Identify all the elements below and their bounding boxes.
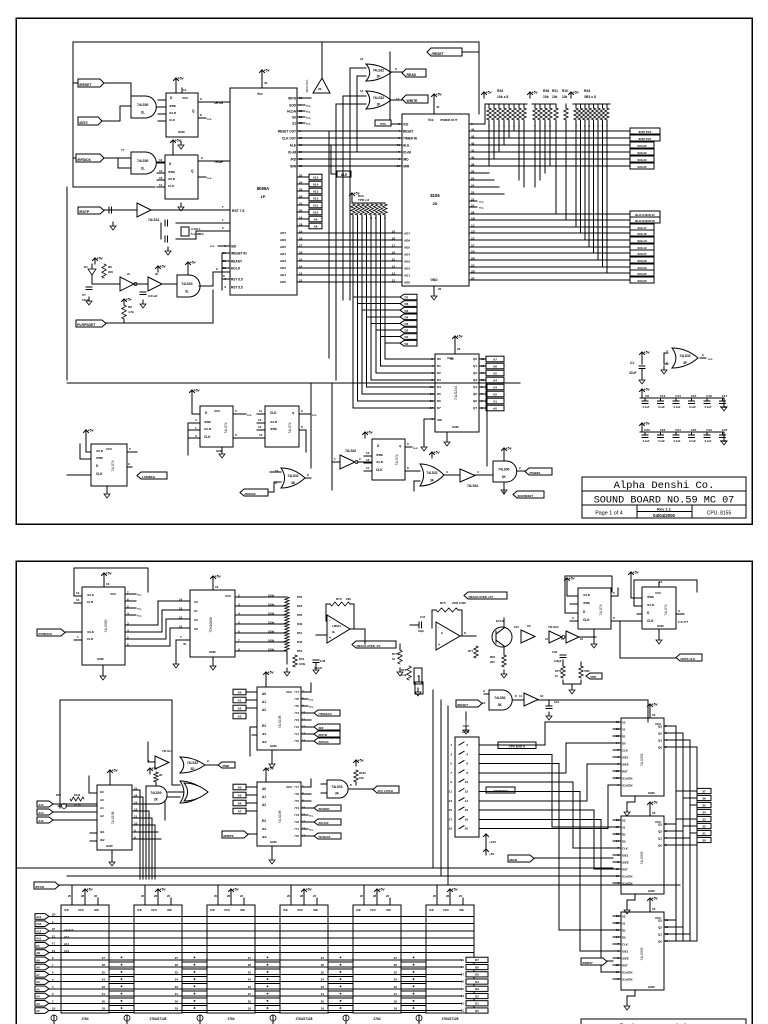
svg-text:12: 12 [76, 591, 80, 595]
svg-text:2764: 2764 [81, 1017, 88, 1021]
svg-text:Q2: Q2 [658, 925, 662, 929]
svg-text:220: 220 [108, 270, 113, 274]
svg-text:22: 22 [167, 894, 171, 898]
svg-text:41: 41 [471, 149, 475, 153]
svg-text:/PFCD: /PFCD [35, 885, 45, 889]
svg-text:SOL17: SOL17 [637, 226, 647, 230]
svg-text:ALE: ALE [341, 173, 347, 177]
svg-text:D1: D1 [475, 1002, 479, 1006]
svg-text:RST: RST [622, 769, 628, 773]
svg-text:E3: E3 [262, 724, 266, 728]
svg-text:/Y6: /Y6 [294, 697, 299, 701]
svg-text:VCC: VCC [225, 594, 232, 598]
svg-text:/WRITE: /WRITE [223, 834, 234, 838]
svg-text:D7: D7 [475, 958, 479, 962]
svg-text:+5v: +5v [178, 77, 184, 81]
svg-text:10: 10 [258, 425, 262, 429]
svg-text:/CLKEN: /CLKEN [622, 970, 632, 974]
svg-text:VCC: VCC [182, 96, 189, 100]
svg-text:23: 23 [248, 985, 252, 989]
svg-text:/RSTB: /RSTB [319, 733, 327, 737]
svg-text:24: 24 [471, 184, 475, 188]
svg-text:74LS393: 74LS393 [640, 947, 644, 960]
svg-text:/PRE: /PRE [168, 170, 175, 174]
svg-text:44: 44 [471, 128, 475, 132]
svg-text:CLK: CLK [168, 184, 175, 188]
svg-text:+5v: +5v [652, 801, 658, 805]
svg-text:/OE: /OE [94, 908, 99, 912]
svg-text:100k: 100k [268, 629, 275, 633]
svg-text:74LS74: 74LS74 [224, 422, 228, 433]
svg-text:n.c.: n.c. [210, 244, 215, 248]
svg-text:/WAB: /WAB [509, 858, 518, 862]
svg-text:18: 18 [465, 817, 469, 821]
svg-text:74LS04: 74LS04 [467, 484, 478, 488]
svg-text:A0: A0 [493, 407, 497, 411]
svg-text:SOL25: SOL25 [637, 279, 647, 283]
svg-text:30: 30 [702, 838, 706, 842]
svg-text:AD7: AD7 [280, 231, 286, 235]
svg-text:11: 11 [366, 466, 370, 470]
svg-text:f=9.777: f=9.777 [678, 620, 689, 624]
svg-text:/Y1: /Y1 [294, 732, 299, 736]
svg-text:RST 7.5: RST 7.5 [232, 209, 245, 213]
svg-text:10: 10 [482, 701, 486, 705]
svg-text:D0: D0 [622, 935, 626, 939]
svg-text:VCC: VCC [110, 592, 117, 596]
svg-text:A2: A2 [262, 708, 266, 712]
svg-text:PLRPSDET: PLRPSDET [77, 323, 96, 327]
svg-text:34: 34 [702, 810, 706, 814]
svg-text:/TIMER OUT: /TIMER OUT [440, 118, 457, 122]
svg-text:n.c.: n.c. [479, 206, 484, 210]
svg-text:CLK: CLK [622, 846, 628, 850]
svg-text:A8: A8 [314, 225, 318, 229]
svg-text:/Y3: /Y3 [294, 718, 299, 722]
svg-text:A7: A7 [238, 810, 242, 814]
svg-text:/E1: /E1 [100, 830, 105, 834]
svg-text:14: 14 [299, 265, 303, 269]
svg-text:74LS74: 74LS74 [288, 422, 292, 433]
svg-text:18: 18 [299, 223, 303, 227]
svg-text:/CLK: /CLK [87, 593, 95, 597]
svg-text:/PRE: /PRE [169, 104, 176, 108]
svg-text:200: 200 [490, 660, 495, 664]
svg-text:D7: D7 [437, 406, 441, 410]
svg-text:AD3: AD3 [280, 259, 286, 263]
svg-text:S0: S0 [292, 115, 296, 119]
svg-text:+5v: +5v [194, 389, 200, 393]
svg-text:D0: D0 [622, 741, 626, 745]
svg-text:n.c.: n.c. [207, 176, 212, 180]
svg-text:100k: 100k [299, 662, 306, 666]
svg-text:A11: A11 [313, 204, 319, 208]
svg-text:/OE: /OE [240, 908, 245, 912]
svg-text:VCC: VCC [286, 690, 293, 694]
svg-text:+5V: +5V [489, 852, 494, 856]
svg-text:A13: A13 [36, 915, 41, 919]
svg-text:+5v: +5v [486, 91, 492, 95]
svg-text:TIMER IN: TIMER IN [403, 136, 418, 140]
svg-text:X2: X2 [622, 818, 626, 822]
svg-text:19: 19 [449, 827, 453, 831]
svg-text:R49: R49 [297, 622, 303, 626]
svg-text:CLK OUT: CLK OUT [282, 136, 296, 140]
svg-text:/CE: /CE [137, 908, 142, 912]
svg-text:/DCBKD: /DCBKD [319, 807, 330, 811]
svg-text:1P: 1P [261, 194, 266, 199]
svg-text:D0: D0 [405, 342, 409, 346]
svg-text:R53: R53 [297, 604, 303, 608]
svg-text:/Y4: /Y4 [294, 711, 299, 715]
svg-text:/WR: /WR [403, 164, 410, 168]
svg-text:D3: D3 [437, 378, 441, 382]
svg-text:D1: D1 [84, 265, 88, 269]
svg-text:13: 13 [299, 272, 303, 276]
svg-text:22: 22 [299, 195, 303, 199]
svg-text:/PRE: /PRE [204, 420, 211, 424]
svg-text:AD1: AD1 [404, 273, 410, 277]
svg-text:10: 10 [159, 158, 163, 162]
svg-text:A15: A15 [313, 176, 319, 180]
svg-text:R81: R81 [490, 655, 496, 659]
svg-text:/CE: /CE [356, 908, 361, 912]
svg-text:ALE: ALE [403, 143, 409, 147]
svg-text:23: 23 [471, 191, 475, 195]
svg-text:16: 16 [215, 585, 219, 589]
svg-text:/Y7: /Y7 [294, 785, 299, 789]
svg-text:A1: A1 [493, 400, 497, 404]
svg-text:A1: A1 [100, 806, 104, 810]
svg-text:2K: 2K [154, 797, 159, 801]
svg-text:Q2: Q2 [658, 731, 662, 735]
svg-text:AD4: AD4 [280, 252, 286, 256]
svg-text:100k: 100k [268, 602, 275, 606]
svg-text:13: 13 [179, 606, 183, 610]
svg-text:21: 21 [471, 204, 475, 208]
svg-text:/OE: /OE [167, 908, 172, 912]
svg-text:D1: D1 [622, 832, 626, 836]
svg-text:/CLK: /CLK [87, 630, 95, 634]
svg-text:74LS138: 74LS138 [278, 810, 282, 823]
svg-text:24: 24 [299, 181, 303, 185]
svg-text:26: 26 [321, 963, 325, 967]
svg-text:CLK: CLK [96, 472, 103, 476]
svg-text:15: 15 [299, 258, 303, 262]
svg-text:1k: 1k [392, 657, 396, 661]
svg-text:SOL33: SOL33 [637, 158, 647, 162]
svg-text:19: 19 [299, 230, 303, 234]
svg-text:22: 22 [386, 894, 390, 898]
svg-text:GND: GND [648, 889, 656, 893]
svg-text:20: 20 [321, 999, 325, 1003]
svg-text:12: 12 [465, 790, 469, 794]
svg-text:CLK: CLK [376, 468, 383, 472]
svg-text:/Y7: /Y7 [294, 690, 299, 694]
svg-text:/OE: /OE [313, 908, 318, 912]
svg-text:12: 12 [299, 279, 303, 283]
svg-text:n.c.: n.c. [312, 413, 317, 417]
svg-text:R120: R120 [359, 771, 366, 775]
svg-text:0.1uF: 0.1uF [689, 405, 696, 409]
svg-text:24: 24 [102, 978, 106, 982]
svg-text:GND: GND [430, 278, 438, 282]
svg-text:+5v: +5v [160, 265, 166, 269]
svg-text:CLK: CLK [622, 942, 628, 946]
svg-text:D6: D6 [475, 965, 479, 969]
svg-text:+5v: +5v [87, 888, 93, 892]
svg-text:16: 16 [652, 811, 656, 815]
svg-text:D3: D3 [405, 322, 409, 326]
svg-text:+5v: +5v [112, 769, 118, 773]
svg-text:13: 13 [159, 176, 163, 180]
svg-text:Q3: Q3 [473, 378, 477, 382]
svg-text:Q1: Q1 [658, 738, 662, 742]
svg-text:SOL35: SOL35 [637, 165, 647, 169]
svg-text:SOL26: SOL26 [637, 259, 647, 263]
svg-text:n.c.: n.c. [309, 704, 314, 708]
svg-text:33pF: 33pF [418, 629, 424, 633]
svg-text:/CLKEN: /CLKEN [622, 977, 632, 981]
svg-text:16: 16 [392, 251, 396, 255]
svg-text:E3: E3 [100, 790, 104, 794]
svg-text:/PRE: /PRE [96, 456, 103, 460]
svg-text:74LS00: 74LS00 [331, 785, 342, 789]
svg-text:22: 22 [471, 198, 475, 202]
svg-text:16: 16 [652, 713, 656, 717]
svg-text:74LS74: 74LS74 [599, 604, 603, 615]
svg-text:A5: A5 [493, 372, 497, 376]
svg-text:AD0: AD0 [280, 280, 286, 284]
svg-text:C14: C14 [675, 394, 681, 398]
svg-text:Q4: Q4 [473, 385, 477, 389]
svg-text:R55: R55 [297, 649, 303, 653]
svg-text:D2: D2 [475, 994, 479, 998]
svg-text:/Y0: /Y0 [294, 834, 299, 838]
svg-text:19: 19 [248, 1007, 252, 1011]
svg-text:47uF: 47uF [629, 371, 636, 375]
svg-text:25: 25 [175, 970, 179, 974]
svg-text:+5v: +5v [126, 298, 132, 302]
svg-text:D5: D5 [405, 309, 409, 313]
svg-text:Q0: Q0 [473, 357, 477, 361]
svg-text:21: 21 [102, 992, 106, 996]
svg-text:20: 20 [433, 894, 437, 898]
svg-text:PPD: PPD [591, 675, 597, 679]
svg-text:/OEE: /OEE [622, 762, 629, 766]
svg-text:R52: R52 [297, 595, 303, 599]
svg-text:0.1uF: 0.1uF [658, 439, 665, 443]
svg-text:/INT0: /INT0 [79, 121, 87, 125]
svg-text:28: 28 [446, 894, 450, 898]
svg-text:/Y2: /Y2 [294, 820, 299, 824]
svg-text:Page 1 of 4: Page 1 of 4 [595, 511, 623, 517]
svg-text:A14: A14 [38, 811, 44, 815]
svg-text:C8: C8 [645, 394, 649, 398]
svg-text:A0: A0 [262, 787, 266, 791]
svg-text:23: 23 [102, 985, 106, 989]
svg-text:74LS74: 74LS74 [111, 460, 115, 471]
svg-text:R76: R76 [401, 668, 407, 672]
svg-text:26: 26 [471, 170, 475, 174]
svg-text:ALE: ALE [290, 143, 296, 147]
svg-text:+5v: +5v [268, 671, 274, 675]
svg-text:0.1uF: 0.1uF [705, 405, 712, 409]
svg-text:8155 PC5: 8155 PC5 [639, 130, 652, 134]
svg-text:12: 12 [545, 637, 549, 641]
svg-text:10V: 10V [514, 625, 519, 629]
svg-text:+5v: +5v [97, 257, 103, 261]
svg-text:REGULATED +5V: REGULATED +5V [469, 595, 494, 599]
svg-text:R73: R73 [336, 597, 342, 601]
svg-text:/RD: /RD [403, 157, 409, 161]
svg-text:22: 22 [313, 894, 317, 898]
svg-text:+5v: +5v [88, 429, 94, 433]
svg-text:/CLR: /CLR [169, 111, 177, 115]
svg-text:74LS393: 74LS393 [640, 753, 644, 766]
svg-text:11: 11 [134, 814, 138, 818]
svg-text:AD5: AD5 [280, 245, 286, 249]
svg-text:C13: C13 [660, 394, 666, 398]
svg-text:74LS32: 74LS32 [373, 96, 384, 100]
svg-text:3F: 3F [683, 361, 687, 365]
svg-text:SOL12: SOL12 [637, 246, 647, 250]
svg-text:READY: READY [231, 259, 243, 263]
svg-text:A12: A12 [36, 929, 41, 933]
svg-text:n.c.: n.c. [306, 110, 311, 114]
svg-text:C16: C16 [706, 394, 712, 398]
svg-text:NOTE CLK: NOTE CLK [681, 657, 697, 661]
svg-text:SOL22: SOL22 [637, 272, 647, 276]
svg-text:74LS00: 74LS00 [498, 467, 509, 471]
svg-text:1.536MHz: 1.536MHz [142, 475, 156, 479]
svg-text:40: 40 [436, 105, 440, 109]
svg-text:74LS00: 74LS00 [150, 791, 161, 795]
svg-text:D1: D1 [622, 928, 626, 932]
svg-text:2K: 2K [502, 475, 507, 479]
svg-text:/CLR: /CLR [204, 427, 212, 431]
svg-text:20: 20 [299, 209, 303, 213]
svg-text:A4: A4 [36, 995, 40, 999]
svg-text:A6: A6 [238, 802, 242, 806]
svg-text:R43: R43 [584, 89, 590, 93]
svg-text:04/04/2000: 04/04/2000 [653, 513, 676, 518]
svg-text:14: 14 [134, 793, 138, 797]
svg-text:74LS244: 74LS244 [454, 386, 458, 400]
svg-text:0.01uF: 0.01uF [314, 666, 323, 670]
svg-text:28: 28 [300, 894, 304, 898]
svg-text:Q1: Q1 [658, 932, 662, 936]
svg-text:2D: 2D [432, 201, 437, 206]
svg-text:0.01uF: 0.01uF [148, 294, 158, 298]
svg-text:/Y3: /Y3 [294, 813, 299, 817]
svg-text:0.1uF: 0.1uF [674, 439, 681, 443]
svg-text:74LS14: 74LS14 [148, 218, 159, 222]
svg-text:GND: GND [657, 624, 665, 628]
svg-text:43: 43 [471, 135, 475, 139]
svg-text:22: 22 [459, 894, 463, 898]
svg-text:16: 16 [461, 980, 465, 984]
svg-text:2K: 2K [159, 773, 163, 777]
svg-text:/PBRST: /PBRST [582, 961, 593, 965]
svg-text:/8910AF: /8910AF [245, 492, 257, 496]
svg-text:VCC: VCC [214, 409, 221, 413]
svg-text:/OE1: /OE1 [622, 853, 629, 857]
svg-text:14: 14 [179, 597, 183, 601]
svg-text:/E2: /E2 [262, 835, 267, 839]
svg-text:D5: D5 [475, 973, 479, 977]
svg-text:74LS138: 74LS138 [278, 715, 282, 728]
svg-text:D0: D0 [475, 1009, 479, 1013]
svg-text:A0: A0 [100, 798, 104, 802]
svg-text:A4: A4 [493, 379, 497, 383]
svg-text:74LS00: 74LS00 [137, 159, 148, 163]
svg-text:A1: A1 [262, 795, 266, 799]
svg-text:C24: C24 [675, 428, 681, 432]
svg-text:28: 28 [81, 894, 85, 898]
svg-text:25: 25 [321, 970, 325, 974]
svg-text:D0: D0 [622, 839, 626, 843]
svg-text:C30: C30 [552, 650, 558, 654]
svg-text:/CE: /CE [429, 908, 434, 912]
svg-text:Q0: Q0 [658, 939, 662, 943]
svg-text:6.144MHz: 6.144MHz [191, 232, 204, 236]
svg-text:VCC: VCC [224, 908, 231, 912]
svg-text:CLK: CLK [647, 619, 654, 623]
svg-text:n.c.: n.c. [306, 104, 311, 108]
svg-text:20: 20 [175, 999, 179, 1003]
svg-text:/CLR: /CLR [376, 460, 384, 464]
svg-text:AD0: AD0 [404, 280, 410, 284]
svg-text:20: 20 [68, 894, 72, 898]
svg-text:+: + [329, 636, 331, 640]
svg-text:SOL27: SOL27 [637, 252, 647, 256]
svg-text:12: 12 [179, 615, 183, 619]
svg-text:3L: 3L [155, 272, 159, 276]
svg-text:1B: 1B [52, 1007, 55, 1011]
svg-text:3K: 3K [498, 703, 503, 707]
svg-text:23: 23 [321, 985, 325, 989]
svg-text:SOL13: SOL13 [637, 239, 647, 243]
svg-text:D1: D1 [437, 364, 441, 368]
svg-text:/CE: /CE [210, 908, 215, 912]
svg-text:17: 17 [449, 817, 453, 821]
svg-text:/E2: /E2 [100, 838, 105, 842]
svg-text:AD6: AD6 [404, 238, 410, 242]
svg-text:13: 13 [430, 392, 434, 396]
svg-text:2764/27128: 2764/27128 [150, 1017, 167, 1021]
svg-text:R54: R54 [299, 657, 305, 661]
svg-text:8155: 8155 [430, 193, 440, 198]
svg-text:/WR: /WR [290, 164, 297, 168]
svg-text:13: 13 [360, 89, 364, 93]
svg-text:GND: GND [209, 650, 217, 654]
svg-text:n.c.: n.c. [137, 606, 142, 610]
svg-text:4.7k: 4.7k [128, 310, 134, 314]
svg-text:A1: A1 [238, 699, 242, 703]
svg-text:PWR: PWR [223, 764, 231, 768]
svg-text:/RSTP: /RSTP [79, 210, 90, 214]
svg-text:23: 23 [394, 985, 398, 989]
svg-text:X2: X2 [622, 720, 626, 724]
svg-text:26: 26 [394, 963, 398, 967]
svg-text:R8: R8 [128, 305, 132, 309]
svg-text:74LS14: 74LS14 [162, 749, 173, 753]
svg-text:Q0: Q0 [658, 745, 662, 749]
svg-text:A7: A7 [36, 973, 40, 977]
svg-text:D4: D4 [475, 980, 479, 984]
svg-text:74LS02: 74LS02 [345, 449, 356, 453]
